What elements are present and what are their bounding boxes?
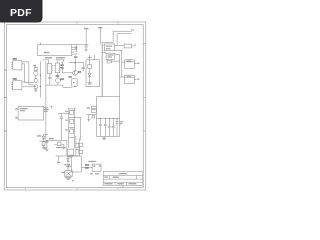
sheet inner border frame (7, 25, 144, 188)
wire hook from J3 outer (22, 62, 34, 85)
label D2 (37, 135, 41, 136)
wire from J4 lower (22, 86, 36, 88)
inductor L1 (115, 44, 136, 48)
IC U3 (47, 64, 53, 74)
label near D3 (67, 156, 72, 157)
label above rail (74, 56, 78, 58)
wire vert marks (61, 62, 63, 73)
node riser A (98, 27, 102, 44)
transistor Q3 (56, 73, 61, 85)
transistor Q1 (34, 71, 38, 76)
label right of Q2 (78, 71, 81, 72)
IC U2 box (102, 44, 115, 51)
label C11 (49, 138, 54, 139)
connector J5 mid-left (18, 107, 44, 120)
resistor R12 at U5 left (92, 106, 97, 108)
capacitor bank C7 (108, 118, 111, 136)
label J3 (13, 58, 17, 59)
pin arrow 1 (16, 108, 18, 110)
capacitor C2 polarized (85, 46, 88, 49)
ladder rung 4 (69, 136, 75, 138)
label below loop (90, 173, 93, 174)
wire elbow inner (117, 34, 131, 45)
wire vertical feed (119, 55, 121, 97)
wire tall loop rails (75, 136, 77, 156)
capacitor bank C6 (104, 118, 107, 136)
border zone tick top (77, 22, 118, 25)
pin arrow 2 (16, 117, 18, 119)
wire bottom rail of block (46, 84, 63, 86)
resistor R9 (42, 142, 45, 147)
PDF badge (0, 0, 43, 23)
wire stub into J2 (120, 76, 125, 78)
title block (103, 172, 143, 186)
sheet outer border frame (4, 22, 146, 190)
pin stubs right of U1 (72, 46, 76, 48)
label left of snubber (85, 164, 89, 165)
transistor Q2 (73, 70, 78, 75)
ground in shield box (87, 83, 92, 85)
resistor R5 (34, 85, 37, 90)
wire ground rail under U5 (96, 135, 119, 137)
wire K-cluster rail (46, 139, 67, 141)
loop rung mid (76, 149, 80, 151)
label net ATX (45, 57, 53, 58)
wire into shield box (87, 55, 94, 65)
resistor R11 (79, 143, 83, 147)
capacitor C9 right (116, 118, 124, 136)
IC U6 box (102, 53, 115, 60)
wire Q2 base (62, 72, 72, 74)
wire long vertical left of U3 (45, 61, 47, 140)
resistor R3 column (34, 65, 38, 71)
wire elbow outer (102, 29, 131, 42)
wire right of ladder (80, 118, 82, 141)
loop rung top (76, 142, 80, 144)
IC U4 (54, 63, 61, 73)
connector J1 (125, 60, 140, 69)
wire down from rail (66, 140, 68, 155)
capacitor C10 (60, 113, 64, 140)
border zone tick bottom (26, 188, 119, 190)
wire into ladder (58, 112, 69, 114)
shield box around D1 chain (86, 60, 99, 87)
capacitor bank C8 (112, 118, 115, 136)
capacitor C3 (81, 63, 85, 71)
wire cross (39, 140, 48, 142)
wire side rails under U5 (95, 118, 97, 136)
junction dots mid rail (62, 62, 84, 63)
node cross marker (50, 106, 52, 108)
ground left of U5 (87, 114, 90, 121)
U1 value text (44, 52, 49, 54)
label at elbow tick (132, 30, 134, 31)
pin numbers right of U1 (76, 46, 78, 54)
loop rung low (56, 155, 80, 157)
resistor R13 at U5 left (92, 109, 97, 112)
wire top rail from U1 (72, 44, 89, 46)
capacitor C4 below U3 (48, 74, 51, 86)
pin labels U4 right (61, 65, 64, 66)
tick below title block (122, 185, 124, 187)
diode D2 column (42, 135, 48, 142)
title block text Date / Sheet (104, 183, 112, 184)
ground under C11 (45, 149, 48, 151)
ladder rung 1 (69, 108, 75, 110)
ladder pin labels (65, 111, 68, 131)
junction dots under U5 (100, 118, 118, 119)
tiny mark below (72, 180, 74, 181)
connector J4 left (11, 81, 22, 90)
resistor R8 (70, 129, 74, 133)
resistor R4 (34, 76, 37, 83)
tick above U1 (40, 43, 42, 45)
node VCC riser (84, 28, 89, 45)
resistor R2 in shield box (88, 65, 92, 69)
ground under rail (102, 136, 106, 139)
wire hline mid (69, 62, 83, 64)
wire U6 to connectors (115, 49, 122, 51)
wire net segment 1 (43, 60, 49, 64)
label near Q3 (56, 75, 59, 76)
ladder rung 2 (69, 117, 75, 119)
node PS riser (75, 56, 76, 71)
transistor Q4 (65, 171, 72, 177)
ground under R9 (42, 147, 47, 149)
ground under column (34, 90, 38, 92)
capacitor C12 (66, 165, 71, 167)
capacitor C11 (45, 140, 48, 149)
resistor R10 (54, 142, 64, 150)
title block text Title (119, 173, 127, 174)
capacitor bank C5 (99, 118, 102, 136)
label Q4 (62, 172, 65, 173)
wire from J4 (22, 81, 25, 83)
connector J3 left (11, 61, 22, 70)
label output stage (88, 161, 95, 162)
label row (64, 164, 70, 165)
capacitor C15 small (92, 116, 95, 118)
label R10 (56, 147, 66, 148)
IC U1 power supply controller box (38, 45, 72, 56)
output loop rectangle (71, 156, 81, 172)
resistor R14 (79, 150, 83, 154)
resistor R6 (70, 110, 74, 114)
wire vertical feed 2 (121, 50, 123, 77)
IC U5 main switcher box (96, 97, 119, 119)
wire stub (63, 85, 72, 87)
connector J2 (125, 75, 140, 84)
loop rung mid2 (76, 147, 80, 149)
label net PWR (56, 57, 65, 58)
wire net segment 2 (56, 60, 64, 63)
snubber loop (92, 164, 101, 171)
capacitor C14 (99, 165, 101, 166)
capacitor C1 (75, 45, 78, 51)
wire hook from J3 inner (22, 64, 34, 83)
transformer T1 box (67, 149, 73, 157)
ground below C2 (85, 49, 88, 51)
resistor R7 (70, 119, 74, 123)
ground under Q4 (65, 177, 72, 180)
label right of J5 (44, 107, 49, 112)
wire vertical bus 3 (40, 61, 41, 97)
wire ladder rails (68, 108, 70, 148)
svg-text:PDF: PDF (10, 7, 32, 19)
label J4 (13, 78, 17, 79)
wire into U5 left (87, 113, 97, 115)
diode D1 (88, 68, 91, 82)
title block text Size / Document Number (104, 176, 107, 177)
label left of K1 (69, 76, 72, 77)
wire to output stage (81, 167, 92, 169)
border zone tick left (4, 70, 6, 131)
resistor R1 small box below U6 (107, 60, 111, 63)
wire bus vertical (101, 42, 103, 96)
border zone tick right (143, 44, 146, 132)
ladder rung 3 (69, 126, 75, 128)
diode D3 (67, 157, 70, 171)
relay K1 box (72, 79, 77, 88)
label left of U5 (87, 108, 91, 109)
wire drop with label (57, 156, 60, 163)
capacitor C13 (93, 165, 95, 166)
wire bus down right (101, 45, 103, 97)
